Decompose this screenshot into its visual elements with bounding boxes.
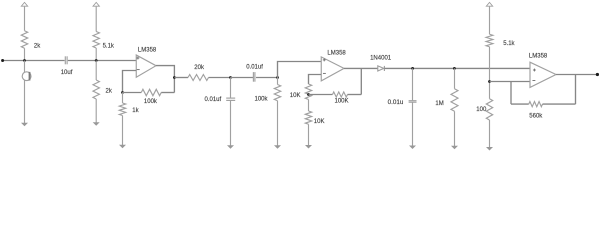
svg-text:10K: 10K [314, 119, 325, 125]
svg-text:2k: 2k [34, 43, 41, 49]
svg-text:100K: 100K [335, 98, 349, 104]
svg-text:2k: 2k [106, 89, 113, 95]
svg-text:1k: 1k [132, 108, 139, 114]
svg-text:100k: 100k [144, 99, 158, 105]
svg-text:0.01uf: 0.01uf [246, 64, 263, 70]
svg-text:1N4001: 1N4001 [370, 56, 392, 62]
svg-text:LM358: LM358 [529, 54, 548, 60]
svg-text:LM358: LM358 [138, 47, 157, 53]
svg-text:100: 100 [476, 107, 487, 113]
svg-text:0.01uf: 0.01uf [205, 97, 222, 103]
svg-text:10K: 10K [290, 93, 301, 99]
svg-text:LM358: LM358 [327, 50, 346, 56]
svg-text:10uf: 10uf [61, 70, 73, 76]
svg-text:560k: 560k [529, 113, 543, 119]
svg-text:0.01u: 0.01u [388, 99, 404, 106]
svg-text:5.1k: 5.1k [103, 43, 115, 49]
svg-text:20k: 20k [194, 65, 205, 71]
svg-text:100k: 100k [255, 97, 269, 103]
svg-text:5.1k: 5.1k [503, 41, 515, 47]
svg-text:1M: 1M [435, 101, 443, 107]
